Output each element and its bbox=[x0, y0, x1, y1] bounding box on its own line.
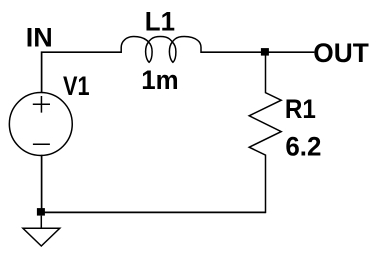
wire top-right horizontal inductor to OUT bbox=[201, 51, 314, 53]
junction OUT node bbox=[261, 48, 269, 56]
svg-text:R1: R1 bbox=[285, 94, 316, 124]
svg-text:OUT: OUT bbox=[313, 38, 369, 68]
wire bottom horizontal bbox=[42, 211, 266, 213]
wire V1 bottom vertical bbox=[41, 155, 43, 213]
svg-text:IN: IN bbox=[26, 23, 53, 53]
resistor R1 bbox=[249, 56, 281, 214]
inductor L1 bbox=[121, 37, 201, 63]
svg-text:L1: L1 bbox=[145, 7, 175, 37]
svg-text:1m: 1m bbox=[141, 65, 178, 95]
svg-text:V1: V1 bbox=[63, 71, 90, 101]
wire top-left horizontal IN to inductor, with corner down to V1 bbox=[42, 52, 122, 93]
svg-text:6.2: 6.2 bbox=[285, 131, 321, 161]
ground bbox=[23, 216, 60, 246]
voltage source V1 bbox=[9, 93, 72, 156]
junction bottom-left node bbox=[37, 208, 45, 216]
